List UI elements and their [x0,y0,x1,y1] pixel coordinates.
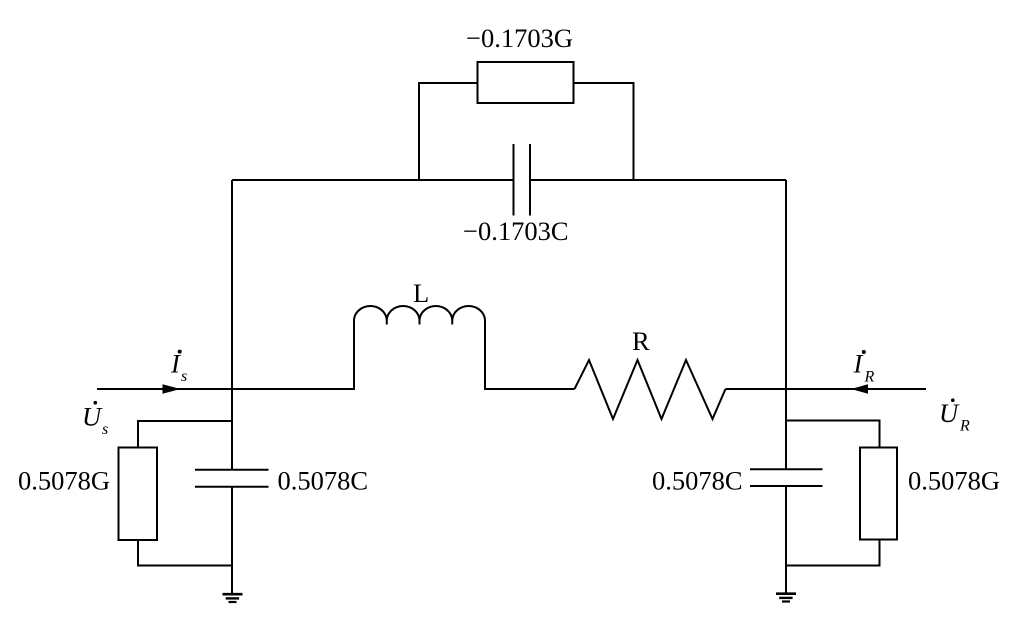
svg-text:R: R [864,369,875,386]
svg-text:−0.1703C: −0.1703C [463,216,569,246]
svg-text:s: s [181,368,187,385]
svg-text:U: U [939,398,960,428]
svg-text:0.5078C: 0.5078C [652,466,743,496]
svg-text:R: R [632,326,650,356]
svg-text:U: U [82,402,103,432]
svg-text:I: I [853,349,864,379]
svg-text:s: s [102,421,108,438]
svg-text:L: L [413,278,429,308]
svg-text:0.5078G: 0.5078G [18,466,110,496]
svg-text:0.5078C: 0.5078C [278,466,369,496]
svg-text:R: R [959,418,970,435]
svg-text:0.5078G: 0.5078G [908,466,1000,496]
svg-text:−0.1703G: −0.1703G [466,23,573,53]
